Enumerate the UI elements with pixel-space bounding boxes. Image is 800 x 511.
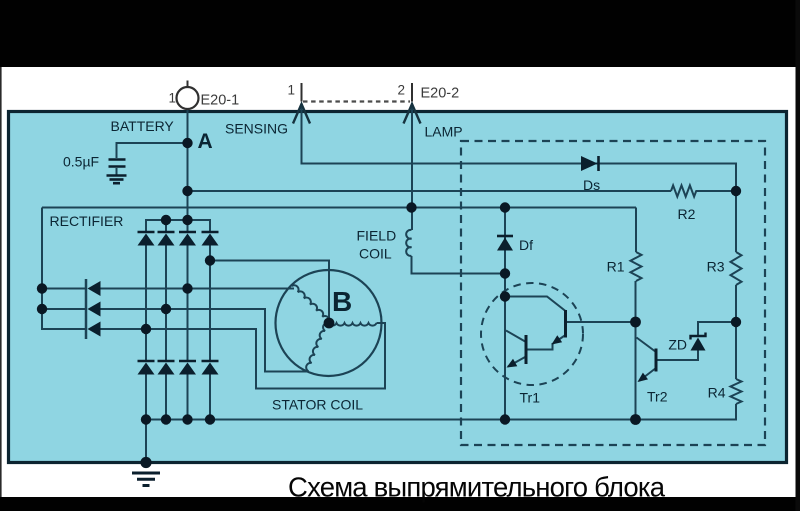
svg-text:Df: Df bbox=[519, 237, 533, 253]
svg-text:LAMP: LAMP bbox=[425, 124, 463, 140]
svg-text:B: B bbox=[332, 286, 352, 317]
svg-text:ZD: ZD bbox=[668, 337, 687, 353]
svg-text:Tr2: Tr2 bbox=[647, 389, 668, 405]
svg-text:2: 2 bbox=[398, 83, 406, 98]
svg-text:RECTIFIER: RECTIFIER bbox=[50, 213, 124, 229]
svg-text:COIL: COIL bbox=[359, 246, 392, 262]
svg-text:STATOR COIL: STATOR COIL bbox=[272, 397, 363, 413]
svg-text:Схема выпрямительного блока: Схема выпрямительного блока bbox=[288, 472, 666, 503]
svg-text:0.5µF: 0.5µF bbox=[63, 154, 99, 170]
svg-text:R2: R2 bbox=[678, 206, 696, 222]
svg-text:SENSING: SENSING bbox=[225, 121, 288, 137]
svg-text:E20-1: E20-1 bbox=[201, 93, 240, 109]
svg-text:BATTERY: BATTERY bbox=[111, 118, 175, 134]
svg-text:R4: R4 bbox=[708, 385, 726, 401]
svg-text:Ds: Ds bbox=[583, 177, 600, 193]
svg-text:R3: R3 bbox=[707, 259, 725, 275]
svg-text:A: A bbox=[198, 130, 213, 153]
svg-text:E20-2: E20-2 bbox=[421, 86, 460, 102]
svg-text:Tr1: Tr1 bbox=[520, 390, 541, 406]
svg-text:1: 1 bbox=[169, 91, 177, 106]
svg-text:FIELD: FIELD bbox=[357, 228, 397, 244]
svg-text:R1: R1 bbox=[607, 259, 625, 275]
svg-text:1: 1 bbox=[288, 83, 296, 98]
